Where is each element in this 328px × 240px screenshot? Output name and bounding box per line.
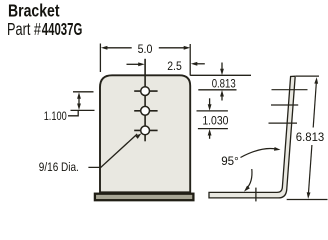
hole 2 — [141, 106, 150, 115]
dim 1.100 top extension line — [73, 91, 94, 93]
dim 1.030 top arrow — [209, 98, 211, 104]
side view foot tick — [255, 188, 257, 202]
svg-text:9/16 Dia.: 9/16 Dia. — [39, 160, 79, 174]
dim 95 deg upper arc — [241, 149, 277, 158]
side view tick 1 — [272, 89, 308, 91]
dim 1.100 bottom extension line — [71, 109, 95, 111]
dim 2.5 left arrow — [127, 63, 139, 65]
dim 5.0 left extension line — [99, 44, 101, 73]
svg-text:1.030: 1.030 — [202, 113, 228, 127]
extension line C (hole2 plane) — [197, 110, 228, 112]
leader 9/16 — [88, 134, 137, 167]
svg-text:5.0: 5.0 — [138, 42, 153, 56]
svg-text:95°: 95° — [221, 154, 239, 168]
dim 6.813 top extension — [296, 75, 319, 77]
svg-text:2.5: 2.5 — [167, 59, 182, 73]
hole centerline — [144, 59, 146, 142]
bracket face (front view) — [100, 75, 190, 192]
dim 5.0 line left segment with arrow — [107, 47, 132, 49]
bottom flange band — [95, 194, 193, 201]
svg-text:Part #: Part # — [7, 19, 41, 39]
svg-text:1.100: 1.100 — [44, 109, 67, 123]
extension line D (hole3 plane) — [198, 128, 228, 130]
extension line A from top edge — [190, 74, 251, 76]
svg-text:44037G: 44037G — [42, 19, 83, 39]
dim 2.5 right arrow — [197, 63, 205, 65]
dim 1.100 leader — [68, 110, 78, 115]
svg-text:Bracket: Bracket — [8, 1, 60, 21]
dim 0.813 bottom arrow — [221, 96, 223, 101]
dim 5.0 line right segment with arrow — [159, 47, 184, 49]
hole tick 1 — [134, 90, 157, 92]
dim 6.813 line top segment with up arrow — [313, 83, 316, 128]
dim 95 deg lower arc — [247, 169, 252, 189]
hole 1 — [141, 87, 150, 96]
dim 1.030 bottom arrow — [209, 135, 211, 139]
hole tick 3 — [134, 129, 157, 131]
dim 6.813 line bottom segment with down arrow — [309, 145, 312, 193]
dim 0.813 top arrow — [221, 63, 223, 70]
dim 1.100 double arrow — [78, 98, 80, 105]
hole tick 2 — [134, 110, 157, 112]
side view tick 2 — [271, 104, 298, 106]
dim 6.813 bottom extension — [287, 199, 328, 201]
hole 3 — [141, 126, 150, 135]
dim 5.0 right extension line — [189, 44, 191, 76]
side view profile — [209, 76, 295, 198]
extension line B (hole1 plane) — [198, 89, 236, 91]
svg-text:6.813: 6.813 — [296, 130, 325, 144]
svg-text:0.813: 0.813 — [212, 77, 236, 91]
side view tick 3 — [269, 122, 298, 124]
